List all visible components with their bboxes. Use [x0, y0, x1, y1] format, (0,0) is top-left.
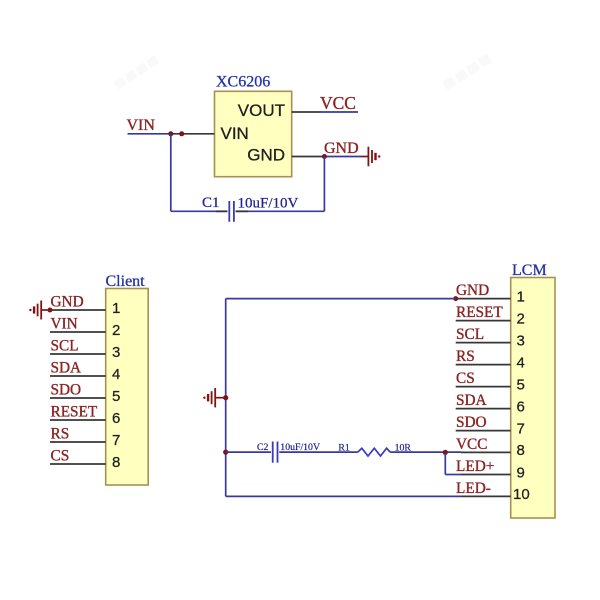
pin 5 stub	[50, 397, 106, 399]
svg-text:5: 5	[112, 388, 120, 405]
pin 3 stub	[50, 353, 106, 355]
svg-text:8: 8	[112, 454, 120, 471]
pin VIN stub	[171, 133, 215, 135]
wire VCC net	[321, 111, 359, 113]
ground symbol top right	[361, 147, 381, 167]
wire LCM GND horizontal	[226, 298, 456, 300]
wire C1 row right	[236, 210, 325, 212]
svg-text:2: 2	[517, 310, 525, 327]
svg-text:VOUT: VOUT	[238, 101, 285, 120]
pin GND stub	[292, 156, 325, 158]
wire VCC to LED+ vertical	[444, 452, 446, 474]
svg-text:LED-: LED-	[456, 480, 491, 497]
svg-text:CS: CS	[51, 448, 70, 465]
svg-text:6: 6	[517, 398, 525, 415]
svg-text:6: 6	[112, 410, 120, 427]
svg-text:SDA: SDA	[456, 392, 487, 409]
wire C2 to R1	[279, 451, 357, 453]
pin 8 stub	[50, 463, 106, 465]
svg-text:C1: C1	[202, 195, 220, 211]
capacitor C2 plates	[273, 442, 278, 463]
pin 4 stub	[456, 364, 511, 366]
capacitor C1 plates	[229, 201, 234, 222]
pin 5 stub	[456, 386, 511, 388]
pin 7 stub	[50, 441, 106, 443]
watermark A	[113, 55, 159, 89]
svg-text:3: 3	[112, 344, 120, 361]
ground symbol Client	[29, 301, 50, 320]
wire vertical C1 to GND junction	[323, 157, 325, 212]
svg-text:2: 2	[112, 322, 120, 339]
svg-text:SCL: SCL	[51, 338, 79, 355]
svg-text:SDA: SDA	[51, 360, 82, 377]
watermark B	[442, 53, 492, 90]
junction dot VIN b	[179, 131, 184, 136]
svg-text:8: 8	[517, 442, 525, 459]
wire R1 to VCC junction	[390, 451, 461, 453]
svg-text:7: 7	[517, 420, 525, 437]
svg-text:3: 3	[517, 332, 525, 349]
svg-text:10uF/10V: 10uF/10V	[238, 196, 299, 212]
svg-text:GND: GND	[456, 282, 489, 299]
wire GND net	[324, 156, 360, 158]
svg-text:VCC: VCC	[320, 93, 356, 113]
junction dot LCM GND	[453, 296, 458, 301]
svg-text:GND: GND	[324, 140, 359, 157]
pin 6 stub	[50, 419, 106, 421]
svg-text:1: 1	[517, 288, 525, 305]
svg-text:RESET: RESET	[456, 304, 503, 321]
wire C1 row left	[171, 210, 228, 212]
svg-text:LED+: LED+	[456, 458, 494, 475]
pin 4 stub	[50, 375, 106, 377]
svg-text:10: 10	[513, 486, 530, 503]
svg-text:GND: GND	[247, 146, 285, 165]
pin 8 stub	[461, 451, 511, 453]
svg-text:VIN: VIN	[221, 124, 249, 143]
svg-text:RS: RS	[51, 426, 70, 443]
wire left vertical bus	[225, 299, 227, 497]
junction dot C2 branch	[223, 450, 228, 455]
svg-text:R1: R1	[338, 442, 350, 453]
connector Client body	[106, 289, 149, 486]
svg-text:SCL: SCL	[456, 326, 484, 343]
junction dot GND top	[322, 154, 327, 159]
junction dot VCC pin8	[443, 450, 448, 455]
svg-text:4: 4	[112, 366, 120, 383]
svg-text:7: 7	[112, 432, 120, 449]
svg-text:1: 1	[112, 300, 120, 317]
junction dot mid ground	[223, 395, 228, 400]
svg-text:GND: GND	[51, 294, 84, 311]
svg-text:9: 9	[517, 464, 525, 481]
pin 6 stub	[456, 408, 511, 410]
pin 2 stub	[50, 331, 106, 333]
svg-text:SDO: SDO	[51, 382, 82, 399]
svg-text:VIN: VIN	[51, 316, 78, 333]
svg-text:CS: CS	[456, 370, 475, 387]
svg-text:XC6206: XC6206	[216, 74, 270, 91]
pin 1 stub (LCM GND)	[456, 298, 511, 300]
pin 1 stub (Client GND)	[50, 309, 106, 311]
ground symbol middle	[203, 388, 226, 407]
regulator U XC6206 body	[215, 91, 292, 176]
junction dot Client GND	[48, 308, 53, 313]
svg-text:VIN: VIN	[127, 117, 156, 134]
pin VOUT stub	[292, 111, 321, 113]
wire LED+ horizontal	[445, 474, 461, 476]
svg-text:C2: C2	[257, 442, 269, 453]
svg-text:RS: RS	[456, 348, 475, 365]
wire C2 row left	[226, 451, 271, 453]
svg-text:VCC: VCC	[456, 436, 487, 453]
resistor R1 zigzag	[358, 448, 391, 456]
capacitor C1 pin left	[216, 210, 228, 212]
pin 2 stub	[456, 320, 511, 322]
svg-text:10uF/10V: 10uF/10V	[280, 442, 320, 453]
svg-text:4: 4	[517, 354, 525, 371]
svg-text:SDO: SDO	[456, 414, 487, 431]
pin 3 stub	[456, 342, 511, 344]
pin 7 stub	[456, 430, 511, 432]
wire VIN net	[128, 133, 172, 135]
junction dot VIN a	[168, 131, 173, 136]
capacitor C1 pin right	[236, 210, 248, 212]
wire LED- horizontal	[226, 495, 461, 497]
wire VIN vertical to C1	[170, 134, 172, 212]
connector LCM body	[511, 278, 555, 519]
svg-text:5: 5	[517, 376, 525, 393]
pin 9 stub	[461, 474, 511, 476]
svg-text:RESET: RESET	[51, 404, 98, 421]
svg-text:LCM: LCM	[512, 262, 547, 279]
pin 10 stub	[461, 495, 511, 497]
svg-text:Client: Client	[106, 273, 146, 290]
